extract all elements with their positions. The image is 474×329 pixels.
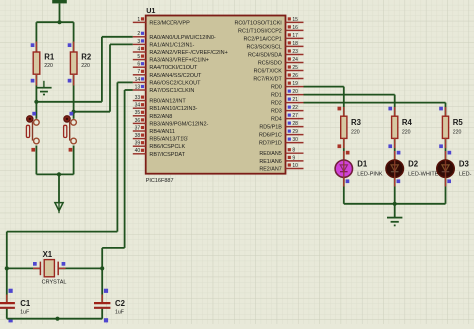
- svg-text:220: 220: [402, 130, 411, 136]
- svg-text:RC0/T1OSO/T1CKI: RC0/T1OSO/T1CKI: [234, 20, 281, 26]
- junction node A: [34, 100, 38, 104]
- wire OSC1 horizontal jog: [102, 247, 124, 249]
- U1 pin 16 (RC1/T1OSI/CCP2): [238, 25, 303, 35]
- svg-text:X1: X1: [43, 250, 53, 259]
- svg-text:LED-: LED-: [459, 171, 472, 177]
- U1 pin 40 (RB7/ICSPDAT): [133, 148, 186, 158]
- svg-text:RD2: RD2: [271, 101, 282, 107]
- U1 pin 19 (RD0): [271, 81, 303, 91]
- wire R5 top: [445, 103, 447, 117]
- svg-text:26: 26: [292, 73, 298, 79]
- U1 pin 23 (RC4/SDI/SDA): [248, 49, 304, 59]
- indicator C1 bottom: [9, 318, 13, 322]
- wire RD1 to R4 branch: [304, 94, 395, 96]
- svg-text:R4: R4: [402, 118, 413, 127]
- svg-text:RD4: RD4: [271, 117, 282, 123]
- svg-text:RD3: RD3: [271, 109, 282, 115]
- junction bottom rail: [57, 172, 61, 176]
- svg-text:16: 16: [292, 25, 298, 31]
- svg-text:RC4/SDI/SDA: RC4/SDI/SDA: [248, 53, 282, 59]
- U1 pin 8 (RE0/AN5): [259, 148, 303, 158]
- svg-text:220: 220: [351, 130, 360, 136]
- svg-text:R1: R1: [44, 53, 55, 62]
- wire R4 top: [394, 95, 396, 117]
- svg-text:1uF: 1uF: [115, 310, 124, 316]
- wire OSC1 (pin13) net: pin to riser: [125, 89, 133, 91]
- svg-text:33: 33: [135, 95, 141, 101]
- junction power/rail: [57, 20, 61, 24]
- wire top rail: [36, 21, 73, 23]
- svg-text:RB5/AN13/T1G: RB5/AN13/T1G: [149, 137, 187, 143]
- wire R4 to D2: [394, 138, 396, 159]
- svg-text:37: 37: [135, 125, 141, 131]
- capacitor C1: [0, 303, 15, 308]
- pin segments X1 (red): [33, 267, 40, 269]
- pin segments R3 bottom / D1 anode (red): [343, 138, 345, 148]
- U1 pin 7 (RA5/AN4/SS/C2OUT): [133, 69, 202, 79]
- push button 1: [26, 116, 39, 144]
- svg-text:10: 10: [292, 163, 298, 169]
- indicator R5 top: [439, 107, 443, 111]
- svg-text:RB0/AN12/INT: RB0/AN12/INT: [149, 99, 186, 105]
- svg-text:RC3/SCK/SCL: RC3/SCK/SCL: [246, 44, 281, 50]
- ground terminal arrow: [55, 203, 63, 214]
- indicator R4 top: [388, 107, 392, 111]
- pin segments R1 R2 (red component pins): [35, 42, 37, 53]
- U1 pin 39 (RB6/ICSPCLK): [133, 141, 186, 151]
- svg-text:8: 8: [292, 148, 295, 154]
- svg-text:RD5/P1B: RD5/P1B: [259, 125, 282, 131]
- wire R1 riser: [35, 22, 37, 52]
- svg-text:14: 14: [135, 77, 141, 83]
- svg-text:D1: D1: [357, 160, 368, 169]
- wire ground stem: [58, 174, 60, 203]
- svg-text:CRYSTAL: CRYSTAL: [42, 280, 67, 286]
- U1 pin 3 (RA1/AN1/C12IN1-): [133, 39, 195, 49]
- svg-text:6: 6: [137, 62, 140, 68]
- wire RA1 riser: [109, 44, 111, 111]
- U1 pin 35 (RB2/AN8): [133, 110, 173, 120]
- wire R2 riser: [73, 22, 75, 52]
- wire ground stem LEDs: [394, 204, 396, 218]
- svg-text:C2: C2: [115, 299, 126, 308]
- svg-text:5: 5: [137, 54, 140, 60]
- pin segments R4 (red): [394, 107, 396, 117]
- svg-text:21: 21: [292, 97, 298, 103]
- indicator R5 bottom: [439, 144, 443, 148]
- svg-text:RA4/T0CKI/C1OUT: RA4/T0CKI/C1OUT: [149, 65, 198, 71]
- svg-text:R2: R2: [81, 53, 92, 62]
- svg-text:RA3/AN3/VREF+/C1IN+: RA3/AN3/VREF+/C1IN+: [149, 58, 209, 64]
- U1 pin 24 (RC5/SDO): [258, 57, 304, 67]
- U1 pin 27 (RD4): [271, 113, 303, 123]
- indicator R4 bottom: [388, 144, 392, 148]
- pin segment D2 cathode (red): [394, 177, 396, 186]
- wire D3 to bus: [445, 177, 447, 204]
- wire D2 to bus: [394, 177, 396, 204]
- wire C1 bottom: [6, 309, 8, 319]
- power terminal VCC: [52, 0, 67, 22]
- U1 pin 9 (RE1/AN6): [259, 155, 303, 165]
- indicator D2 cathode: [397, 179, 401, 183]
- svg-text:RC1/T1OSI/CCP2: RC1/T1OSI/CCP2: [238, 28, 282, 34]
- wire C2 top: [101, 268, 103, 302]
- wire button2 to bottom rail: [73, 146, 75, 175]
- U1 pin 28 (RD5/P1B): [259, 121, 303, 131]
- pin segments C2 (red): [101, 295, 103, 303]
- svg-text:LED-PINK: LED-PINK: [357, 171, 383, 177]
- U1 pin 34 (RB1/AN10/C12IN3-): [133, 103, 198, 113]
- indicator R3 top: [338, 107, 342, 111]
- resistor R5: [442, 116, 448, 138]
- wire X1 right drop: [101, 248, 103, 269]
- wire button1 to bottom rail: [35, 146, 37, 175]
- svg-text:36: 36: [135, 118, 141, 124]
- svg-text:13: 13: [135, 84, 141, 90]
- wire caps bottom rail: [7, 318, 102, 320]
- svg-text:40: 40: [135, 148, 141, 154]
- svg-text:U1: U1: [146, 6, 155, 15]
- svg-text:RC6/TX/CK: RC6/TX/CK: [254, 69, 283, 75]
- wire RA0 to U1 pin 2: [102, 36, 133, 38]
- svg-text:220: 220: [81, 63, 90, 69]
- svg-text:30: 30: [292, 137, 298, 143]
- svg-text:C1: C1: [20, 299, 31, 308]
- svg-text:19: 19: [292, 81, 298, 87]
- wire D1 to bus: [343, 177, 345, 204]
- svg-text:RD0: RD0: [271, 85, 282, 91]
- U1 pin 21 (RD2): [271, 97, 303, 107]
- indicator D3 cathode: [447, 179, 451, 183]
- svg-text:PIC16F887: PIC16F887: [146, 178, 174, 184]
- svg-text:R3: R3: [351, 118, 362, 127]
- indicator D2 anode: [397, 151, 401, 155]
- indicator button2 top: [70, 112, 74, 116]
- svg-text:24: 24: [292, 57, 298, 63]
- svg-text:RA0/AN0/ULPWU/C12IN0-: RA0/AN0/ULPWU/C12IN0-: [149, 35, 215, 41]
- svg-text:RD7/P1D: RD7/P1D: [259, 141, 282, 147]
- U1 pin 5 (RA3/AN3/VREF+/C1IN+): [133, 54, 209, 64]
- pin segments R5 (red): [445, 107, 447, 117]
- U1 pin 18 (RC3/SCK/SCL): [246, 41, 303, 51]
- indicator R3 bottom: [338, 144, 342, 148]
- indicator D1 cathode: [346, 179, 350, 183]
- U1 pin 37 (RB4/AN11): [133, 125, 175, 135]
- junction LED bus: [393, 202, 397, 206]
- indicator button2 bottom: [69, 148, 73, 152]
- U1 pin 13 (RA7/OSC1/CLKIN): [133, 84, 195, 94]
- LED D2: [386, 160, 403, 177]
- wire R3 top: [343, 87, 345, 117]
- svg-text:34: 34: [135, 103, 141, 109]
- LED D3: [437, 160, 454, 177]
- svg-text:RE3/MCLR/VPP: RE3/MCLR/VPP: [149, 20, 190, 26]
- indicator R2 bottom: [68, 79, 72, 83]
- U1 pin 20 (RD1): [271, 89, 303, 99]
- indicator X1 right: [62, 262, 66, 266]
- U1 pin 14 (RA6/OSC2/CLKOUT): [133, 77, 201, 87]
- svg-text:RC5/SDO: RC5/SDO: [258, 61, 282, 67]
- pin segments R1 R2 bottom (red): [35, 74, 37, 86]
- resistor R3: [341, 116, 347, 138]
- svg-text:RC7/RX/DT: RC7/RX/DT: [253, 77, 282, 83]
- wire RD0 to R3 branch: [304, 86, 344, 88]
- U1 pin 10 (RE2/AN7): [259, 163, 303, 173]
- svg-text:RA5/AN4/SS/C2OUT: RA5/AN4/SS/C2OUT: [149, 73, 202, 79]
- capacitor C2: [94, 303, 110, 308]
- wire OSC2 riser: [116, 82, 118, 231]
- svg-text:20: 20: [292, 89, 298, 95]
- pin segments R4 bottom / D2 anode (red): [394, 138, 396, 148]
- svg-text:LED-WHITE: LED-WHITE: [408, 171, 439, 177]
- svg-text:2: 2: [137, 31, 140, 37]
- indicator X1 left: [33, 262, 37, 266]
- pin segments R5 bottom / D3 anode (red): [445, 138, 447, 148]
- ground symbol LEDs: [387, 218, 402, 226]
- svg-text:18: 18: [292, 41, 298, 47]
- junction crystal left node: [5, 266, 9, 270]
- wire OSC1 riser: [124, 90, 126, 248]
- svg-text:RE0/AN5: RE0/AN5: [259, 151, 281, 157]
- svg-text:38: 38: [135, 133, 141, 139]
- wire crystal right: [58, 267, 102, 269]
- svg-text:RB7/ICSPDAT: RB7/ICSPDAT: [149, 152, 185, 158]
- pin segments C1 (red): [6, 295, 8, 303]
- svg-text:RC2/P1A/CCP1: RC2/P1A/CCP1: [243, 36, 281, 42]
- svg-text:25: 25: [292, 65, 298, 71]
- crystal X1: [40, 260, 58, 277]
- svg-text:RB4/AN11: RB4/AN11: [149, 129, 175, 135]
- svg-text:RA2/AN2/VREF-/CVREF/C2IN+: RA2/AN2/VREF-/CVREF/C2IN+: [149, 50, 227, 56]
- wire R3 to D1: [343, 138, 345, 159]
- svg-text:22: 22: [292, 105, 298, 111]
- svg-text:15: 15: [292, 17, 298, 23]
- U1 pin 25 (RC6/TX/CK): [254, 65, 304, 75]
- svg-text:RA6/OSC2/CLKOUT: RA6/OSC2/CLKOUT: [149, 80, 201, 86]
- wire bottom rail: [36, 173, 73, 175]
- junction caps bottom: [55, 317, 59, 321]
- svg-text:RB3/AN9/PGM/C12IN2-: RB3/AN9/PGM/C12IN2-: [149, 121, 208, 127]
- U1 pin 17 (RC2/P1A/CCP1): [243, 33, 303, 43]
- pin segment D1 cathode (red): [343, 177, 345, 186]
- junction crystal right node: [100, 266, 104, 270]
- resistor R2: [70, 52, 77, 74]
- wire OSC2 (pin14) net: pin to riser: [117, 81, 132, 83]
- wire node B horizontal (button2 to RA1 riser): [74, 111, 110, 113]
- svg-text:RA7/OSC1/CLKIN: RA7/OSC1/CLKIN: [149, 88, 194, 94]
- U1 pin 2 (RA0/AN0/ULPWU/C12IN0-): [133, 31, 216, 41]
- svg-text:29: 29: [292, 129, 298, 135]
- svg-text:R5: R5: [453, 118, 464, 127]
- indicator D1 anode: [346, 151, 350, 155]
- wire RA1 to U1 pin 3: [110, 43, 133, 45]
- wire RA0 riser: [101, 37, 103, 102]
- indicator button1 bottom: [31, 148, 35, 152]
- junction node B: [72, 110, 76, 114]
- svg-text:RB6/ICSPCLK: RB6/ICSPCLK: [149, 144, 185, 150]
- svg-text:RB2/AN8: RB2/AN8: [149, 114, 172, 120]
- wire R5 to D3: [445, 138, 447, 159]
- U1 pin 33 (RB0/AN12/INT): [133, 95, 187, 105]
- svg-text:23: 23: [292, 49, 298, 55]
- ground symbol near R1: [36, 81, 51, 95]
- wire RD2 to R5 branch: [304, 102, 446, 104]
- resistor R4: [392, 116, 398, 138]
- svg-text:RA1/AN1/C12IN1-: RA1/AN1/C12IN1-: [149, 42, 194, 48]
- svg-text:RB1/AN10/C12IN3-: RB1/AN10/C12IN3-: [149, 106, 197, 112]
- svg-text:9: 9: [292, 155, 295, 161]
- svg-text:35: 35: [135, 110, 141, 116]
- wire C2 bottom: [101, 309, 103, 319]
- push button 2: [64, 116, 77, 144]
- svg-text:3: 3: [137, 39, 140, 45]
- indicator R2 top: [68, 43, 72, 47]
- svg-text:4: 4: [137, 46, 140, 52]
- indicator C2 bottom: [104, 318, 108, 322]
- svg-text:1: 1: [137, 17, 140, 23]
- U1 pin 4 (RA2/AN2/VREF-/CVREF/C2IN+): [133, 46, 228, 56]
- svg-text:7: 7: [137, 69, 140, 75]
- svg-text:1uF: 1uF: [20, 310, 29, 316]
- indicator D3 anode: [448, 151, 452, 155]
- op IC U1 PIC16F887 body: [146, 16, 286, 174]
- U1 pin 26 (RC7/RX/DT): [253, 73, 303, 83]
- svg-text:RD6/P1C: RD6/P1C: [259, 133, 282, 139]
- pin segment D3 cathode (red): [445, 177, 447, 186]
- indicator R1 bottom: [31, 79, 35, 83]
- indicator R1 top: [31, 43, 35, 47]
- wire crystal left: [7, 267, 41, 269]
- wire R1 bottom to button 1: [35, 74, 37, 119]
- resistor R1: [33, 52, 40, 74]
- svg-text:D3: D3: [459, 160, 470, 169]
- wire X1 left drop: [6, 232, 8, 269]
- U1 pin 1 (RE3/MCLR/VPP): [133, 17, 190, 27]
- U1 pin 6 (RA4/T0CKI/C1OUT): [133, 62, 198, 72]
- svg-text:28: 28: [292, 121, 298, 127]
- LED D1: [335, 160, 352, 177]
- svg-text:RE1/AN6: RE1/AN6: [259, 159, 281, 165]
- svg-text:27: 27: [292, 113, 298, 119]
- svg-text:220: 220: [44, 63, 53, 69]
- pin segments R3 (red): [343, 107, 345, 117]
- wire C1 top: [6, 268, 8, 302]
- U1 pin 22 (RD3): [271, 105, 303, 115]
- wire node A horizontal (button1 to RA0 riser): [36, 101, 102, 103]
- U1 pin 29 (RD6/P1C): [259, 129, 303, 139]
- U1 pin 30 (RD7/P1D): [259, 137, 303, 147]
- svg-text:220: 220: [453, 130, 462, 136]
- svg-text:RD1: RD1: [271, 93, 282, 99]
- svg-text:39: 39: [135, 141, 141, 147]
- indicator button1 top: [32, 112, 36, 116]
- indicator C2 top: [104, 289, 108, 293]
- U1 pin 15 (RC0/T1OSO/T1CKI): [234, 17, 303, 27]
- wire LED ground bus: [344, 203, 446, 205]
- wire R2 bottom to button 2: [73, 74, 75, 119]
- svg-text:RE2/AN7: RE2/AN7: [259, 167, 281, 173]
- U1 pin 36 (RB3/AN9/PGM/C12IN2-): [133, 118, 209, 128]
- U1 pin 38 (RB5/AN13/T1G): [133, 133, 188, 143]
- wire OSC2 horizontal to X1 left: [7, 231, 118, 233]
- svg-text:17: 17: [292, 33, 298, 39]
- indicator C1 top: [9, 289, 13, 293]
- svg-text:D2: D2: [408, 160, 419, 169]
